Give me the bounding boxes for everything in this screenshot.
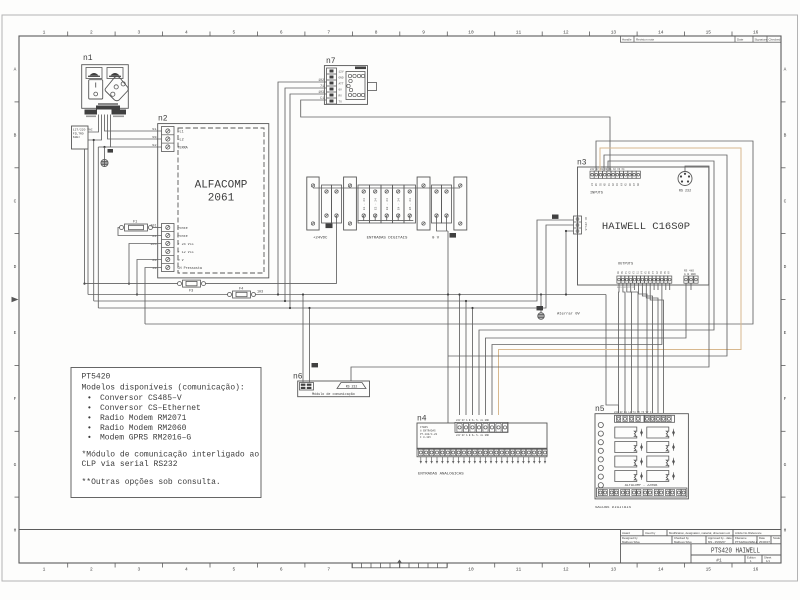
svg-text:24V 0V A B S+ S- AL GND: 24V 0V A B S+ S- AL GND (456, 419, 490, 422)
svg-text:1/1: 1/1 (766, 559, 770, 563)
svg-text:15: 15 (706, 567, 712, 573)
analog input board n4 (417, 415, 547, 477)
svg-text:*Módulo de comunicação interli: *Módulo de comunicação interligado ao (82, 451, 260, 460)
svg-text:Article No./Reference: Article No./Reference (735, 531, 762, 535)
strip top bus (313, 187, 460, 189)
svg-text:Signature: Signature (755, 38, 768, 42)
wire RS232 cable n3 to n6 (351, 166, 709, 381)
svg-text:24V 0V L1 L2 Y4 Y5 Y6 Y7 C: 24V 0V L1 L2 Y4 Y5 Y6 Y7 C (614, 411, 652, 414)
wire n2 0V down to H1 bus (137, 260, 162, 295)
svg-text:GND: GND (339, 77, 344, 80)
svg-text:3: 3 (138, 30, 141, 36)
svg-text:**Outras opções sob consulta.: **Outras opções sob consulta. (82, 478, 221, 487)
wire n3 output Y3 stub (634, 284, 636, 291)
svg-text:C: C (784, 198, 787, 204)
wire n3 output Y0 to n5 (623, 284, 625, 414)
svg-text:A: A (14, 67, 17, 73)
svg-text:12: 12 (563, 567, 569, 573)
svg-text:Módulo de comunicação: Módulo de comunicação (312, 392, 355, 397)
svg-text:Modification, designation, mat: Modification, designation, material, dim… (669, 531, 731, 535)
svg-text:INPUTS: INPUTS (590, 192, 603, 196)
n3 power terminals left (574, 216, 588, 234)
wire n3 output Y1 to n5 (627, 284, 632, 414)
wire N tap down to H2 bus (93, 140, 95, 301)
svg-text:11: 11 (516, 30, 522, 36)
wire n1 pin1 to filter L (88, 115, 99, 133)
line filter box (72, 126, 93, 149)
wire +24 rail up to +24VDC strip (336, 216, 338, 284)
PLC n3 HAIWELL C16S0P (574, 159, 709, 289)
svg-text:ALFACOMP - 2206B: ALFACOMP - 2206B (625, 484, 658, 488)
n2 DC terminal block (162, 224, 175, 272)
svg-text:Date: Date (737, 38, 744, 42)
n3 RS232 round connector (678, 172, 692, 194)
svg-text:Ponte: Ponte (178, 227, 188, 231)
node joins on F3 rail (83, 283, 85, 285)
fuse F1 (120, 221, 162, 232)
DIN rail terminal strip row (307, 177, 467, 241)
svg-text:60Hz: 60Hz (73, 136, 80, 139)
end clamp block 4 (454, 177, 467, 230)
svg-text:H: H (784, 528, 787, 534)
power entry module n1 (82, 54, 129, 117)
svg-text:RS 232: RS 232 (679, 190, 691, 194)
svg-text:E: E (14, 330, 17, 336)
wire n3 output Y2 to n5 (631, 284, 638, 414)
wire n7 0V from H3 (290, 94, 327, 308)
bottom connector blocks (96, 106, 120, 110)
wire n3 output C2 stub (657, 284, 659, 291)
n7 DB9 pins (347, 74, 365, 96)
wire loop D to n4 (479, 161, 714, 415)
svg-text:0V: 0V (339, 89, 343, 92)
svg-text:24V 0V A B S+ S- AL GND: 24V 0V A B S+ S- AL GND (456, 434, 490, 437)
svg-text:n5: n5 (595, 405, 605, 414)
svg-text:0 V: 0 V (178, 259, 185, 263)
svg-text:Modelos disponíveis (comunicaç: Modelos disponíveis (comunicação): (82, 384, 245, 393)
svg-text:HAIWELL C16S0P: HAIWELL C16S0P (602, 221, 690, 233)
wire n2 CH Pressostato down to H4 bus (145, 268, 162, 325)
svg-text:E: E (784, 330, 787, 336)
svg-text:RX: RX (339, 95, 343, 98)
svg-text:+24VDC: +24VDC (313, 237, 328, 241)
svg-text:12V: 12V (339, 71, 344, 74)
wire PE drop to ground (104, 147, 106, 160)
svg-text:Used by: Used by (645, 531, 656, 535)
controller n2 ALFACOMP 2061 (150, 115, 268, 278)
n5 relays (615, 427, 669, 482)
svg-text:Conversor CS485–V: Conversor CS485–V (100, 394, 182, 403)
title block (621, 530, 782, 564)
fuse holder 2 (107, 68, 123, 79)
svg-text:B: B (784, 132, 787, 138)
frame row letters left and right (14, 67, 787, 534)
svg-text:3: 3 (138, 567, 141, 573)
frame column numbers top (43, 30, 759, 36)
wire F1 jumper loop to Ponte2 (118, 228, 162, 236)
svg-text:CH Pressosta: CH Pressosta (178, 266, 202, 271)
svg-text:Aterrar 0V: Aterrar 0V (557, 312, 581, 317)
wire H2 branch to n4 terminal 2 (465, 301, 467, 415)
wire n3 output C0 to n5 (618, 284, 621, 414)
svg-text:•: • (87, 404, 92, 413)
svg-text:103: 103 (318, 90, 324, 94)
communication module n6 (293, 373, 370, 397)
frame column numbers bottom (43, 567, 759, 573)
end clamp block 3 (417, 177, 430, 230)
frame ticks top and bottom (68, 32, 732, 568)
digital input terminals (358, 185, 416, 223)
wire n7 TX long run to PLC input (301, 100, 610, 171)
svg-text:TERRA: TERRA (178, 147, 189, 151)
svg-text:F4: F4 (239, 288, 243, 292)
wire n6 12V from H1 (302, 295, 304, 383)
svg-text:ENTRADAS DIGITAIS: ENTRADAS DIGITAIS (367, 237, 408, 241)
svg-text:Radio Modem RM2071: Radio Modem RM2071 (100, 414, 187, 423)
bottom printing scale bar (352, 563, 447, 568)
svg-text:127/220 VAC: 127/220 VAC (73, 128, 93, 132)
n3 RS485 terminals (684, 270, 698, 284)
wire n7 GND from H2 (285, 88, 327, 301)
svg-text:14: 14 (658, 30, 664, 36)
radio module n7 (324, 57, 376, 104)
svg-text:13: 13 (611, 567, 617, 573)
svg-text:4: 4 (185, 567, 188, 573)
svg-text:5: 5 (232, 567, 235, 573)
svg-text:FILTRO: FILTRO (73, 132, 84, 135)
outlet socket (105, 77, 128, 101)
wire output Y9 to n4 (492, 284, 662, 416)
svg-text:SAIDAS DIGITAIS: SAIDAS DIGITAIS (595, 506, 632, 510)
wire n1 L1 to n2 terminal (105, 115, 162, 132)
fold mark arrow left center (12, 297, 19, 302)
wire n3 supply sense junction (566, 231, 574, 295)
svg-text:61: 61 (152, 128, 156, 132)
svg-text:n1: n1 (83, 54, 93, 63)
svg-text:n6: n6 (293, 373, 303, 382)
svg-text:PTS420HAIWELL: PTS420HAIWELL (735, 540, 758, 544)
bus H3 0V sense (98, 225, 573, 308)
svg-text:•: • (87, 394, 92, 403)
svg-text:•: • (87, 434, 92, 443)
svg-text:6: 6 (280, 567, 283, 573)
svg-text:F: F (14, 396, 17, 402)
svg-text:16: 16 (753, 30, 759, 36)
svg-text:7: 7 (327, 567, 330, 573)
svg-text:8: 8 (375, 30, 378, 36)
wire number 88 (552, 215, 559, 219)
svg-text:Conversor CS–Ethernet: Conversor CS–Ethernet (100, 404, 201, 413)
title block top rule across sheet (19, 529, 781, 531)
svg-text:4: 4 (185, 30, 188, 36)
fuse F4 (228, 288, 264, 299)
svg-text:24V 0V SS X0 X1 X2 X3 X4: 24V 0V SS X0 X1 X2 X3 X4 (590, 168, 625, 171)
wire filter output a down to +24 rail (84, 149, 86, 284)
svg-text:+ 24 VCC: + 24 VCC (178, 243, 194, 247)
svg-text:PTS420 HAIWELL: PTS420 HAIWELL (711, 548, 760, 556)
wire n6 0V from H3 (309, 308, 311, 383)
n3 OUTPUTS terminal row (617, 263, 672, 289)
svg-text:25/06/07: 25/06/07 (759, 540, 770, 544)
fuse holder 1 (86, 68, 102, 79)
svg-text:Matheus Silva: Matheus Silva (622, 540, 640, 544)
svg-text:PT-100/4-20: PT-100/4-20 (420, 432, 438, 436)
bus H4 pressostato to PLC input loop A (145, 141, 753, 324)
n7 pin header (327, 68, 337, 104)
fuse F3 on +24 rail (85, 280, 337, 293)
wire n3 output Y7 stub (653, 284, 655, 291)
n4 top terminal strip (455, 422, 508, 432)
svg-text:•: • (87, 414, 92, 423)
ground electrode symbol (101, 159, 108, 166)
bus H1 0V with fuse F4 inline (88, 294, 228, 296)
svg-text:AAC+ AC24V 24: AAC+ AC24V 24 (617, 286, 635, 289)
relay output board n5 (595, 405, 688, 510)
wire n3 output YA stub (669, 284, 671, 291)
n6 DB9 connector (337, 383, 366, 389)
svg-text:n7: n7 (326, 57, 336, 66)
svg-text:PT5420: PT5420 (82, 373, 111, 382)
svg-text:Handle: Handle (622, 38, 632, 42)
n2 AC terminal block (162, 127, 175, 152)
svg-text:5: 5 (232, 30, 235, 36)
svg-text:7: 7 (327, 30, 330, 36)
svg-text:10: 10 (468, 30, 474, 36)
svg-text:E3 - 24: E3 - 24 (386, 198, 389, 210)
svg-text:2: 2 (90, 567, 93, 573)
svg-text:G: G (784, 462, 787, 468)
svg-text:D: D (784, 264, 787, 270)
svg-text:+ 12 VCC: + 12 VCC (178, 251, 194, 255)
svg-text:0 V: 0 V (432, 237, 440, 241)
svg-text:Checked: Checked (769, 38, 781, 42)
n6 power terminals (300, 383, 314, 391)
svg-text:Ponte: Ponte (178, 235, 188, 239)
rocker switch (89, 80, 103, 99)
svg-text:A B GND: A B GND (684, 273, 696, 276)
svg-text:13: 13 (611, 30, 617, 36)
svg-text:Award: Award (622, 531, 630, 535)
svg-text:E4 - 24: E4 - 24 (398, 198, 401, 210)
svg-text:ALFACOMP: ALFACOMP (195, 180, 248, 192)
svg-text:OUTPUTS: OUTPUTS (618, 263, 633, 267)
wire H3 branch to n4 terminal 3 (472, 308, 474, 415)
svg-text:n2: n2 (158, 115, 168, 124)
svg-text:2061: 2061 (208, 193, 235, 205)
n4 field wiring arrows (420, 457, 547, 464)
svg-text:~L1: ~L1 (178, 131, 184, 135)
svg-text:n4: n4 (417, 415, 427, 424)
wire n3 output C1 to n5 (639, 284, 648, 414)
wire n2 +24VCC down to F3 rail (129, 244, 162, 284)
svg-text:E5 - 24: E5 - 24 (409, 198, 412, 210)
bus H2 +24V (94, 220, 574, 301)
notes box PT5420 (71, 368, 261, 498)
wire n1 pin2 to filter N (88, 115, 102, 141)
svg-text:MS - 25/06/07: MS - 25/06/07 (708, 540, 726, 544)
svg-text:D: D (14, 264, 17, 270)
wire n1 L2 to n2 terminal (108, 115, 162, 140)
strip bottom bus (357, 220, 413, 222)
n5 top terminal strips (615, 415, 645, 422)
svg-text:C: C (14, 198, 17, 204)
wire RS485 A to n4 (486, 284, 687, 416)
svg-text:16: 16 (753, 567, 759, 573)
svg-text:B: B (14, 132, 17, 138)
svg-text:~L2: ~L2 (178, 139, 184, 143)
svg-text:#1: #1 (716, 558, 722, 564)
svg-text:10: 10 (468, 567, 474, 573)
svg-text:66: 66 (152, 136, 156, 140)
n3 INPUTS terminal row (590, 168, 640, 196)
svg-text:11: 11 (516, 567, 522, 573)
end clamp block 1 (307, 177, 319, 230)
svg-text:ENTRADAS ANALOGICAS: ENTRADAS ANALOGICAS (418, 473, 464, 477)
svg-text:H: H (14, 528, 17, 534)
svg-text:6: 6 (280, 30, 283, 36)
svg-text:•: • (87, 424, 92, 433)
wire n7 12V from H1 (278, 82, 327, 295)
wire loop B analog (tan) (499, 148, 742, 415)
wire filter output b down to H1 bus (87, 149, 89, 295)
svg-text:Radio Modem RM2060: Radio Modem RM2060 (100, 424, 187, 433)
ground Aterrar 0V (540, 293, 542, 295)
svg-text:G: G (14, 462, 17, 468)
wire n3 output Y5 to n5 (646, 284, 658, 414)
svg-text:RS 232: RS 232 (346, 384, 358, 388)
+24VDC terminals (322, 185, 332, 223)
svg-text:ATT: ATT (339, 83, 344, 86)
svg-text:102: 102 (318, 78, 324, 82)
svg-text:14: 14 (658, 567, 664, 573)
wire H1 branch to n4 terminal 1 (459, 295, 461, 416)
svg-text:Matheus Silva: Matheus Silva (674, 540, 692, 544)
node PE junction (103, 146, 105, 148)
svg-text:Modem GPRS RM2016–G: Modem GPRS RM2016–G (100, 434, 191, 443)
wire n3 output Y9 stub (665, 284, 667, 291)
svg-text:TX: TX (339, 101, 343, 104)
wire n3 output Y6 to n5 (650, 284, 663, 414)
svg-text:E1 - 24: E1 - 24 (363, 198, 366, 210)
end clamp block 2 (344, 177, 357, 230)
svg-text:E2 - 24: E2 - 24 (375, 198, 378, 210)
wire 0V strip drop (437, 216, 449, 231)
svg-text:I 0-10V: I 0-10V (420, 436, 431, 439)
svg-text:F: F (784, 396, 787, 402)
svg-text:2: 2 (90, 30, 93, 36)
svg-text:1: 1 (43, 567, 46, 573)
svg-text:AC 24V+S: AC 24V+S (584, 217, 587, 231)
wire labels near n7 (318, 78, 324, 100)
svg-text:Revision note: Revision note (636, 38, 655, 42)
svg-text:F3: F3 (189, 290, 193, 294)
wire PE to n2 TERRA (111, 115, 162, 148)
svg-text:9: 9 (422, 30, 425, 36)
svg-text:62: 62 (152, 144, 156, 148)
svg-text:A: A (784, 67, 787, 73)
svg-text:71: 71 (320, 84, 324, 88)
wire RS485 B stub (690, 284, 692, 291)
svg-text:12: 12 (563, 30, 569, 36)
revision strip top right (621, 36, 782, 42)
wire n3 output Y4 to n5 (642, 284, 652, 414)
wire number 69 (326, 224, 333, 229)
svg-text:103: 103 (257, 291, 263, 295)
wire TERRA tap down to H3 bus (97, 147, 99, 308)
svg-text:n3: n3 (577, 159, 587, 168)
bus H1 end drop to n5 (606, 295, 619, 414)
wire number 102 (312, 363, 319, 367)
n5 bottom terminal strip (597, 488, 687, 497)
svg-text:Scale: Scale (773, 536, 780, 540)
n4 bottom terminal strip (417, 448, 547, 457)
svg-text:CLP via serial RS232: CLP via serial RS232 (82, 460, 178, 469)
wire loop C to n4 supply rail (448, 155, 727, 356)
n5 LED column (598, 422, 603, 487)
svg-text:C1: C1 (320, 96, 324, 100)
svg-text:1: 1 (43, 30, 46, 36)
0V terminals (432, 185, 442, 223)
svg-text:15: 15 (706, 30, 712, 36)
